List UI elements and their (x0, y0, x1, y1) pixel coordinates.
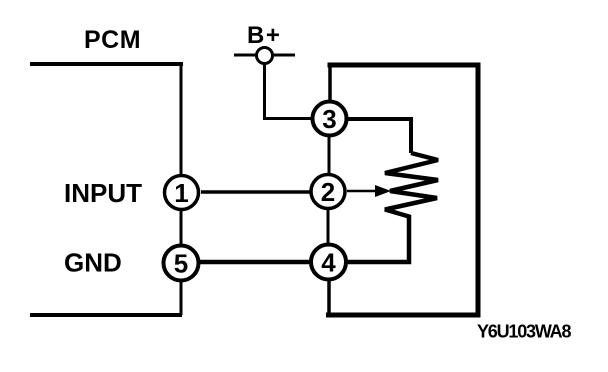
svg-text:PCM: PCM (84, 26, 141, 54)
svg-text:1: 1 (174, 178, 188, 208)
svg-text:Y6U103WA8: Y6U103WA8 (477, 322, 571, 342)
svg-text:B+: B+ (247, 22, 281, 49)
svg-text:3: 3 (322, 104, 336, 134)
svg-text:5: 5 (174, 249, 188, 279)
svg-text:GND: GND (64, 248, 122, 278)
svg-text:INPUT: INPUT (64, 178, 142, 208)
svg-text:4: 4 (321, 248, 336, 278)
svg-text:2: 2 (321, 177, 335, 207)
